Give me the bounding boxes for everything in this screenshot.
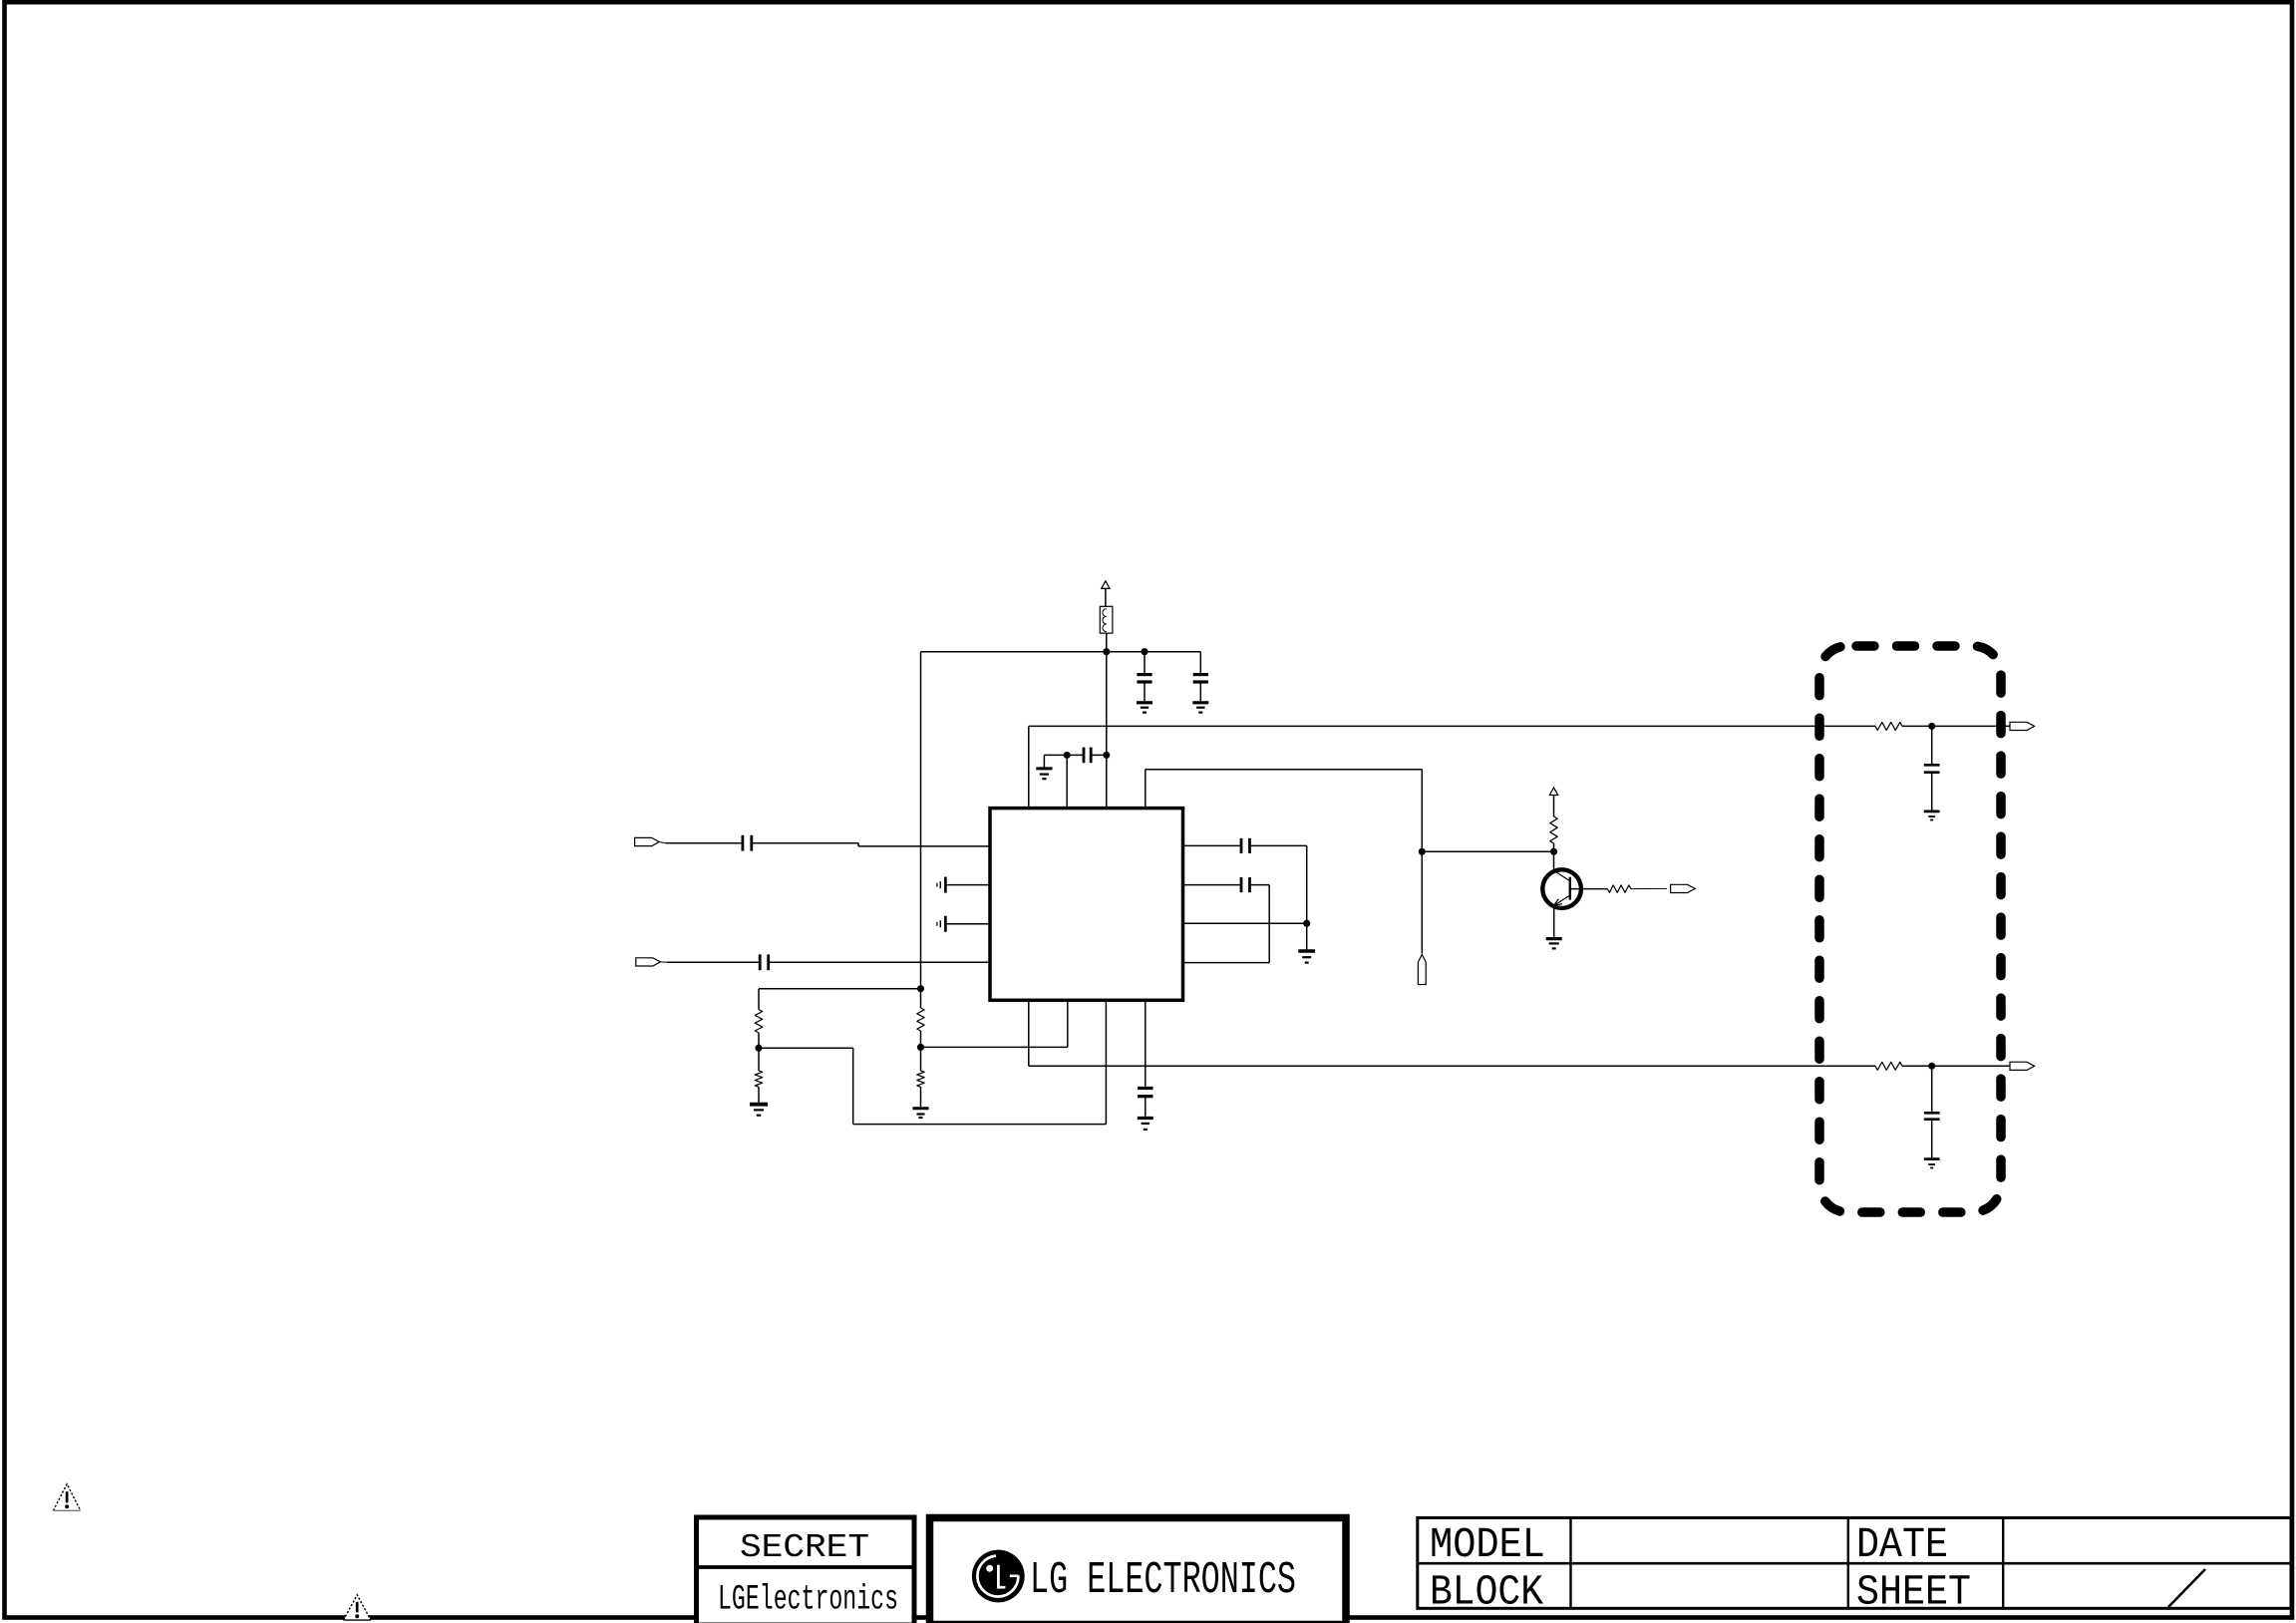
wire RC2 to port xyxy=(1932,1065,2010,1067)
wire Q1 base lead xyxy=(1570,888,1608,890)
wire pin R2 lead xyxy=(1183,884,1242,886)
wire R8 to node xyxy=(1902,1065,1932,1067)
capacitor C7 xyxy=(1241,877,1250,892)
capacitor C2gnd pin3 xyxy=(937,916,946,932)
capacitor C1 xyxy=(743,835,752,851)
dashed block outline xyxy=(1819,646,2001,1212)
wire C5 right lead xyxy=(1091,754,1107,756)
wire R7 to node xyxy=(1902,725,1932,727)
label MODEL xyxy=(1430,1520,1545,1569)
wire node1 to pin C xyxy=(759,1001,1106,1125)
wire C4 to ground xyxy=(1199,682,1201,701)
capacitor C8 xyxy=(1138,1089,1152,1097)
wire R2 top lead xyxy=(920,989,922,1008)
wire IN2 to C2 xyxy=(667,961,760,963)
wire rail to C3 xyxy=(1144,652,1146,675)
svg-text:SHEET: SHEET xyxy=(1856,1568,1971,1617)
power symbol VCC1 xyxy=(1102,581,1110,607)
capacitor C2 xyxy=(760,954,769,970)
resistor R6 xyxy=(1607,885,1630,892)
svg-text:MODEL: MODEL xyxy=(1430,1520,1545,1569)
wire IN1 to C1 xyxy=(666,842,743,844)
label BLOCK xyxy=(1430,1568,1543,1617)
junction divider1 top xyxy=(917,985,924,992)
wire net A top xyxy=(1029,726,1875,807)
label LG ELECTRONICS xyxy=(1030,1554,1296,1606)
wire RC1 to port xyxy=(1932,725,2010,727)
wire pin R3 lead xyxy=(1183,922,1307,924)
wire rail corner to C4 xyxy=(1199,652,1201,675)
wire pin2 left xyxy=(947,884,991,886)
ground under C9 xyxy=(1924,811,1940,820)
wire Q1 emitter xyxy=(1553,906,1555,937)
wire power rail xyxy=(921,651,1201,653)
ground right node xyxy=(1298,951,1315,963)
port OUT1 xyxy=(2010,722,2035,730)
wire C2 to IC pin xyxy=(769,961,990,963)
wire C7 loop to pin R4 xyxy=(1183,885,1270,963)
junction RC2 xyxy=(1928,1063,1935,1070)
wire R5 to collector node xyxy=(1553,843,1555,851)
wire C5 left lead xyxy=(1067,754,1084,756)
wire R3 to ground xyxy=(758,1087,760,1103)
port OUT base xyxy=(1671,884,1696,892)
junction R2/R4 xyxy=(917,1044,924,1051)
wire collector into Q1 xyxy=(1553,851,1555,871)
wire node to pin B xyxy=(921,1001,1068,1048)
inductor L1 xyxy=(1100,606,1113,633)
resistor R5 xyxy=(1550,816,1557,843)
junction C5 right xyxy=(1103,752,1110,759)
ground under R4 xyxy=(912,1109,928,1118)
warning triangle 2 xyxy=(344,1595,372,1620)
wire net B top xyxy=(1146,770,1423,954)
label SHEET xyxy=(1856,1568,1971,1617)
wire C10 to ground xyxy=(1931,1120,1933,1158)
net stub tag xyxy=(1418,955,1426,985)
wire C8 to ground xyxy=(1145,1097,1147,1117)
capacitor C3 xyxy=(1137,675,1151,682)
port IN1 xyxy=(635,837,666,845)
capacitor C10 xyxy=(1924,1113,1940,1119)
wire R4 top lead xyxy=(920,1047,922,1071)
ground under C3 xyxy=(1137,703,1152,713)
resistor R7 xyxy=(1875,722,1902,730)
SECRET box xyxy=(697,1517,915,1623)
IC U1 xyxy=(990,809,1183,1001)
ground Q1 emitter xyxy=(1546,939,1562,949)
wire pin3 left xyxy=(947,923,991,925)
junction right node xyxy=(1303,920,1310,927)
wire RC2 to C10 xyxy=(1931,1066,1933,1112)
junction RC1 xyxy=(1928,723,1935,730)
svg-text:BLOCK: BLOCK xyxy=(1430,1568,1543,1617)
wire C6 to node xyxy=(1250,845,1307,923)
wire R6 to port xyxy=(1631,887,1667,889)
LG ELECTRONICS box xyxy=(930,1518,1347,1623)
svg-text:LG ELECTRONICS: LG ELECTRONICS xyxy=(1030,1554,1296,1606)
wire C5 node to ground xyxy=(1044,755,1067,767)
wire pin R1 lead xyxy=(1183,844,1242,846)
ground at C5 xyxy=(1036,769,1052,779)
wire divider1 branch xyxy=(759,989,921,1010)
sheet slash xyxy=(2168,1569,2205,1607)
resistor R1 xyxy=(755,1010,762,1034)
wire R1 to node xyxy=(758,1033,760,1048)
wire pin A net xyxy=(1029,1001,1875,1067)
warning triangle 1 xyxy=(53,1484,80,1511)
resistor R4 xyxy=(917,1071,924,1087)
junction R1/R3 xyxy=(755,1045,762,1052)
ground under R3 xyxy=(750,1105,768,1116)
wire C9 to ground xyxy=(1931,773,1933,811)
title table xyxy=(1418,1518,2291,1609)
transistor Q1 xyxy=(1542,869,1581,908)
wire L1 to rail xyxy=(1106,633,1108,652)
port IN2 xyxy=(636,958,667,966)
ground under C4 xyxy=(1192,703,1208,713)
resistor R3 xyxy=(755,1071,762,1087)
svg-text:SECRET: SECRET xyxy=(740,1529,869,1567)
wire pin VDD2 to IC xyxy=(1066,755,1068,807)
capacitor C2gnd pin2 xyxy=(937,877,946,893)
junction C5 left xyxy=(1064,752,1071,759)
wire C3 to ground xyxy=(1144,682,1146,701)
ground under C10 xyxy=(1924,1159,1940,1168)
wire RC1 to C9 xyxy=(1931,726,1933,764)
wire R3 top lead xyxy=(758,1048,760,1071)
junction Q1 collector xyxy=(1550,848,1557,855)
wire R2 to node xyxy=(920,1031,922,1047)
wire rail left drop xyxy=(920,652,922,989)
power symbol VCC2 xyxy=(1549,788,1557,816)
wire C1 to IC pin xyxy=(752,843,990,846)
LG logo xyxy=(972,1550,1025,1603)
junction on rail at main vertical xyxy=(1103,648,1110,655)
resistor R2 xyxy=(917,1008,924,1031)
junction net B xyxy=(1419,848,1426,855)
ground under C8 xyxy=(1138,1119,1153,1130)
junction on rail at C3 xyxy=(1141,648,1148,655)
capacitor C9 xyxy=(1924,765,1940,772)
svg-text:LGElectronics: LGElectronics xyxy=(718,1580,898,1620)
resistor R8 xyxy=(1875,1062,1902,1070)
label SECRET xyxy=(740,1529,869,1567)
wire netB to Q1 collector xyxy=(1422,850,1553,852)
label LGElectronics xyxy=(718,1580,898,1620)
capacitor C6 xyxy=(1241,838,1250,853)
wire main vertical rail to IC xyxy=(1106,652,1108,808)
capacitor C4 xyxy=(1193,675,1208,682)
wire R4 to ground xyxy=(920,1087,922,1107)
wire node to ground xyxy=(1306,923,1308,949)
wire pin D to C8 xyxy=(1145,1001,1147,1089)
label DATE xyxy=(1856,1520,1948,1569)
svg-text:DATE: DATE xyxy=(1856,1520,1948,1569)
capacitor C5 xyxy=(1084,748,1091,764)
port OUT2 xyxy=(2010,1062,2035,1070)
